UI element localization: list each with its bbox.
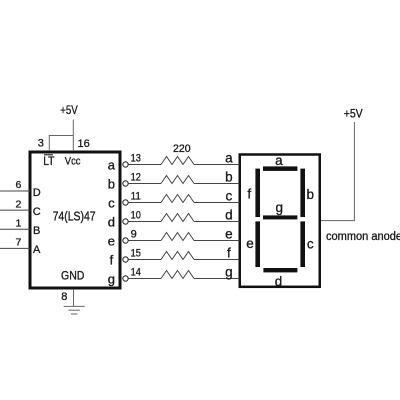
svg-text:+5V: +5V: [60, 103, 78, 117]
svg-text:a: a: [225, 150, 233, 165]
svg-text:c: c: [307, 237, 314, 252]
svg-text:b: b: [225, 169, 233, 184]
svg-text:e: e: [108, 233, 115, 248]
svg-text:10: 10: [131, 209, 141, 221]
svg-text:2: 2: [15, 198, 21, 210]
svg-text:GND: GND: [61, 270, 84, 282]
svg-text:15: 15: [131, 247, 141, 259]
svg-text:f: f: [227, 245, 231, 260]
svg-text:a: a: [108, 157, 116, 172]
svg-text:g: g: [225, 264, 233, 279]
svg-text:c: c: [108, 195, 115, 210]
svg-text:a: a: [275, 153, 283, 168]
svg-text:f: f: [247, 187, 251, 202]
svg-text:B: B: [33, 225, 40, 237]
svg-text:13: 13: [131, 152, 141, 164]
svg-text:D: D: [33, 187, 41, 199]
svg-text:d: d: [108, 214, 115, 229]
svg-text:d: d: [275, 274, 283, 289]
svg-text:g: g: [108, 271, 115, 286]
svg-text:g: g: [276, 200, 284, 215]
svg-text:9: 9: [131, 228, 137, 240]
svg-text:b: b: [306, 187, 314, 202]
svg-text:3: 3: [38, 138, 44, 150]
svg-text:14: 14: [131, 266, 141, 278]
svg-text:Vcc: Vcc: [65, 156, 81, 168]
svg-text:common anode: common anode: [326, 231, 400, 243]
svg-text:1: 1: [15, 217, 21, 229]
svg-text:d: d: [225, 207, 233, 222]
svg-text:C: C: [33, 206, 41, 218]
svg-text:8: 8: [61, 291, 67, 303]
svg-text:220: 220: [173, 143, 191, 155]
svg-text:e: e: [225, 226, 233, 241]
svg-text:16: 16: [78, 138, 90, 150]
svg-text:12: 12: [131, 171, 141, 183]
svg-text:6: 6: [15, 179, 21, 191]
svg-text:11: 11: [131, 190, 141, 202]
svg-text:c: c: [226, 188, 233, 203]
svg-text:LT: LT: [43, 156, 54, 168]
svg-text:b: b: [108, 176, 115, 191]
svg-text:7: 7: [15, 237, 21, 249]
svg-text:+5V: +5V: [344, 107, 363, 121]
svg-text:74(LS)47: 74(LS)47: [53, 210, 96, 224]
svg-text:f: f: [110, 252, 114, 267]
svg-text:A: A: [33, 244, 41, 256]
svg-text:e: e: [246, 236, 254, 251]
